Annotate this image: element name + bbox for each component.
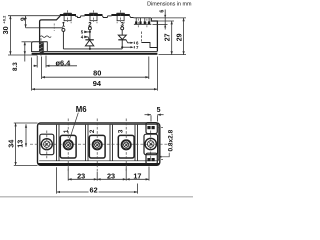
schematic bottom rail wire: [63, 48, 122, 50]
svg-text:17: 17: [133, 171, 141, 180]
lower tab centerline dashes: [157, 159, 163, 161]
thyristor T1 triangle (pointing up): [85, 40, 93, 46]
terminal boss bar at x=67.6: [60, 14, 76, 16]
left mounting hole outer circle: [41, 139, 52, 150]
tab pair centerline dashes: [137, 19, 139, 28]
svg-text:5: 5: [157, 107, 161, 114]
svg-text:23: 23: [107, 171, 115, 180]
dimension 94 line: [32, 88, 158, 90]
right mounting pad square: [144, 134, 158, 155]
top view body outline: [38, 123, 160, 165]
svg-text:0.8x2.8: 0.8x2.8: [167, 129, 174, 151]
right end hidden dashed line: [140, 32, 142, 42]
top view inner top line: [39, 124, 158, 126]
svg-text:80: 80: [93, 68, 101, 77]
left flange wavy break line: [40, 36, 51, 38]
junction dot aux cathode T1: [89, 31, 91, 33]
dimension 9 line: [25, 16, 27, 28]
dimension 5 extension lines: [150, 115, 152, 121]
right mounting hole inner circle: [147, 141, 154, 148]
svg-text:62: 62: [90, 185, 98, 194]
svg-text:23: 23: [77, 171, 85, 180]
four upright fast-on tabs: [135, 18, 137, 22]
dimension 34 extension lines: [14, 122, 38, 124]
dimension 6 bottom extension line: [153, 23, 168, 25]
top profile groove segments: [76, 16, 81, 18]
schematic terminal 1 circle: [62, 28, 65, 31]
gate G1 line to tab 4: [85, 37, 89, 40]
terminal 2 vertical centerline: [96, 119, 98, 172]
dimension 5 line with outside arrows: [145, 114, 152, 116]
terminal 3 square: [118, 135, 134, 158]
terminal 2 inner circle: [95, 142, 100, 147]
terminal 1 square: [60, 135, 76, 158]
page border bottom light line: [0, 196, 193, 198]
right pad vertical centerline: [150, 131, 152, 160]
svg-text:3: 3: [118, 129, 125, 133]
thyristor T2 cathode bar: [118, 39, 126, 41]
dimension 62 line: [57, 191, 138, 193]
dimension 30+0.2 line: [9, 16, 11, 55]
upper tab centerline dashes: [157, 127, 163, 129]
hole diameter 6.4 dimension line and outside arrows: [33, 65, 37, 67]
dimension 29 line: [183, 18, 185, 55]
M6 leader line: [69, 113, 78, 142]
svg-text:94: 94: [93, 79, 102, 88]
svg-text:30: 30: [1, 26, 10, 34]
tab ledge line y=24.3: [134, 23, 151, 25]
terminal 3 inner circle: [124, 142, 129, 147]
dimension 27 extension line: [157, 20, 174, 22]
terminal 3 vertical centerline: [125, 119, 127, 172]
svg-text:+0.2: +0.2: [2, 15, 7, 24]
right hole screw cross: [149, 142, 153, 146]
baseplate thick bottom bar: [32, 53, 158, 55]
screw bump on boss x=67.6: [63, 13, 72, 14]
boss centerline dashed x=93.5: [93, 10, 95, 22]
wire terminal 3 down to thyristor T2: [121, 30, 123, 35]
junction dot aux cathode T2: [121, 46, 123, 48]
junction dot T1 anode on rail: [89, 48, 91, 50]
top view inner bottom line: [39, 160, 158, 162]
svg-text:34: 34: [6, 140, 15, 148]
left mounting flange outline: [32, 42, 48, 52]
thyristor T2 triangle (pointing down): [118, 35, 126, 39]
internal seam line y=27.8: [40, 27, 64, 29]
wire T2 cathode to rail: [121, 40, 123, 49]
left mounting hole inner circle: [44, 141, 50, 147]
gate G2 line to tab 6: [126, 40, 131, 43]
schematic terminal 3 circle: [121, 27, 124, 30]
hole diameter 6.4 extension lines: [36, 56, 38, 68]
left hole centerline dashed: [40, 38, 42, 56]
dimension 9 extension line: [26, 27, 40, 29]
svg-text:27: 27: [164, 33, 171, 41]
tab base line y=17.8: [134, 17, 152, 19]
svg-text:1: 1: [63, 129, 70, 133]
dimension 8.3 line: [24, 42, 26, 62]
extension line top plane y=15.7: [8, 15, 60, 17]
upper tab blades: [147, 126, 150, 129]
svg-text:6: 6: [160, 10, 166, 13]
boss centerline dashed x=120.6: [120, 10, 122, 22]
left hole screw cross: [45, 142, 49, 146]
dimension 80 extension lines: [41, 57, 43, 80]
dimension 62 extension lines: [56, 167, 58, 193]
svg-text:8.3: 8.3: [12, 62, 19, 71]
svg-text:M6: M6: [76, 105, 87, 114]
top view inner right edge line: [157, 125, 159, 161]
dimension 80 line: [42, 76, 149, 78]
left flange hole hatched section: [39, 42, 43, 53]
baseplate bottom extension line: [8, 54, 37, 56]
terminal 1 outer circle: [64, 140, 73, 149]
dimension 34 line: [15, 123, 17, 165]
top surface thin segments between features: [81, 15, 85, 17]
top view thick bottom edge: [38, 163, 159, 165]
screw hole hidden lines below boss x=93.5: [89, 16, 91, 21]
left mounting pad square: [40, 134, 54, 155]
dimension 8.3 extension tick: [22, 41, 32, 43]
lower tab blades: [147, 158, 150, 161]
label 0.8x2.8 leader: [160, 153, 169, 157]
schematic terminal 2 circle: [88, 27, 91, 30]
left flange boss wall: [46, 42, 48, 52]
terminal 2 square: [89, 135, 105, 158]
terminal 1 vertical centerline: [67, 119, 69, 172]
terminal 3 screw cross: [125, 143, 128, 146]
left pad vertical centerline: [46, 131, 48, 160]
upper fast-on tab box: [146, 123, 157, 134]
dimension 13 line: [25, 124, 27, 147]
terminal 2 screw cross: [96, 143, 99, 146]
terminal 3 outer circle: [122, 140, 131, 149]
dimension 94 extension lines: [31, 58, 33, 91]
boss centerline dashed x=67.6: [67, 10, 69, 22]
wire T1 anode to rail: [89, 46, 91, 49]
screw hole hidden lines below boss x=67.6: [63, 16, 65, 21]
terminal boss bar at x=120.6: [111, 14, 129, 16]
lower fast-on tab box: [146, 153, 157, 164]
terminal boss bar at x=93.5: [85, 14, 103, 16]
terminal 1 inner circle: [66, 142, 71, 147]
wire from terminal 1 down: [62, 31, 64, 49]
thyristor T1 cathode bar: [85, 39, 93, 41]
aux cathode tab 7 arrow: [122, 46, 131, 48]
svg-text:29: 29: [176, 33, 183, 41]
screw bump on boss x=120.6: [116, 13, 125, 14]
horizontal centerline dashed: [30, 143, 168, 145]
svg-text:2: 2: [89, 129, 96, 133]
dimension 6 line with outside arrows: [164, 10, 166, 30]
svg-text:Dimensions in mm: Dimensions in mm: [147, 2, 192, 8]
dimension 23/23/17 extension lines: [67, 167, 69, 180]
groove lines between sections: [56, 125, 58, 161]
aux cathode tab 5 arrow: [85, 31, 90, 33]
baseplate thin top line: [32, 50, 158, 52]
terminal 1 screw cross: [67, 143, 70, 146]
module outline left: left edge, top step, diagonal to top: [40, 16, 61, 52]
dimension 27 line: [171, 21, 173, 55]
bottom plane extension line right: [159, 54, 187, 56]
vertical dash at x=54.2: [53, 24, 55, 32]
screw hole hidden lines below boss x=120.6: [116, 16, 118, 21]
right end stepped seam: [141, 43, 157, 48]
wire terminal 2 down to thyristor: [89, 30, 91, 40]
svg-text:9: 9: [20, 17, 27, 21]
right mounting hole outer circle: [145, 138, 156, 149]
dimension 23/23/17 line: [68, 178, 149, 180]
terminal 2 outer circle: [93, 140, 102, 149]
screw bump on boss x=93.5: [89, 13, 98, 14]
right end outline step and right edge: [151, 18, 157, 52]
dimension 29 extension line: [152, 17, 186, 19]
svg-text:13: 13: [16, 140, 25, 148]
svg-text:ø6.4: ø6.4: [56, 58, 72, 67]
